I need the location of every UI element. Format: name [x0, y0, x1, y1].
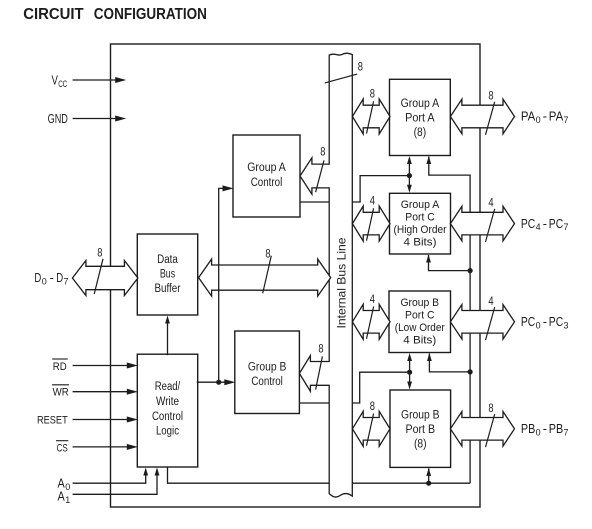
arrowhead branch into Port B bottom	[426, 468, 431, 476]
svg-text:PB: PB	[549, 421, 563, 436]
slash on Group A Control arrow	[316, 160, 324, 192]
double arrow Port C lower to Port B	[407, 353, 412, 390]
svg-text:CS: CS	[57, 442, 68, 454]
slash on internal-bus Port B arrow	[367, 414, 374, 446]
svg-text:Internal Bus Line: Internal Bus Line	[334, 237, 348, 328]
block Group A Port A	[390, 79, 451, 155]
wire rail branch to Group A Port C bottom arrow	[429, 255, 471, 271]
svg-text:-: -	[543, 314, 547, 329]
width label 8 on Group B Control arrow	[318, 343, 323, 355]
svg-text:Port A: Port A	[405, 113, 435, 125]
pin label GND	[48, 111, 68, 126]
title CIRCUIT CONFIGURATION	[23, 6, 207, 23]
pin label CS with overline	[56, 441, 68, 455]
slash on internal-bus Port C upper arrow	[367, 208, 374, 240]
svg-text:Group B: Group B	[401, 410, 440, 422]
bus arrow internal bus to Port C upper (4-bit, bidirectional)	[352, 206, 390, 241]
block Group A Control	[233, 135, 300, 217]
svg-text:8: 8	[370, 401, 375, 413]
slash on internal-bus Port A arrow	[367, 101, 374, 133]
pin wire Vcc with arrow into chip	[73, 77, 127, 83]
pin label PB0 - PB7	[521, 421, 569, 438]
svg-text:WR: WR	[53, 387, 69, 399]
svg-text:8: 8	[488, 90, 493, 102]
svg-text:PC: PC	[549, 216, 563, 231]
slash on buffer-bus arrow	[263, 256, 272, 293]
bus arrow internal bus to Port A (8-bit, bidirectional)	[352, 99, 390, 134]
wire Read/Write Control Logic to Data Bus Buffer with up arrow	[165, 316, 170, 356]
width label 4 on internal-bus Port C lower arrow	[370, 294, 376, 306]
pin wire WR with arrow into Read/Write Control Logic	[73, 389, 138, 395]
svg-text:Control: Control	[251, 177, 283, 189]
pin wire GND with arrow into chip	[73, 116, 127, 122]
internal bus line (vertical bus with break marks)	[329, 53, 352, 497]
svg-text:Group A: Group A	[401, 98, 440, 110]
width label 8 on buffer-bus arrow	[265, 248, 270, 260]
svg-text:0: 0	[536, 427, 541, 438]
svg-text:4: 4	[536, 222, 541, 233]
width label 4 on external PC0 - PC3 arrow	[488, 296, 494, 308]
svg-text:Port B: Port B	[406, 424, 436, 436]
svg-text:-: -	[543, 216, 547, 231]
pin label D0 - D7	[34, 270, 68, 287]
svg-text:4: 4	[370, 294, 376, 306]
pin label PC0 - PC3	[521, 314, 569, 331]
svg-text:Group A: Group A	[247, 162, 286, 174]
svg-text:4: 4	[370, 196, 376, 208]
svg-text:V: V	[52, 72, 59, 87]
arrowhead control rail into Port A bottom	[426, 156, 431, 164]
svg-text:4 Bits): 4 Bits)	[403, 335, 436, 347]
junction dot Group B ports link	[407, 370, 412, 375]
svg-text:Group B: Group B	[248, 361, 287, 373]
svg-text:PB: PB	[521, 421, 535, 436]
svg-text:8: 8	[370, 88, 375, 100]
wire rail top to Port A bottom arrow	[429, 157, 470, 176]
svg-text:8: 8	[265, 248, 270, 260]
pin wire A1 into Read/Write Control Logic bottom	[73, 468, 160, 495]
junction dot on rail for Port C upper	[468, 268, 473, 273]
block Group B Port C lower	[389, 291, 451, 353]
wire Group A Control to internal bus (left of bus)	[299, 201, 330, 203]
svg-text:PC: PC	[521, 314, 535, 329]
svg-text:Logic: Logic	[156, 426, 179, 438]
svg-text:CC: CC	[58, 79, 67, 90]
bus arrow D0-D7 to Data Bus Buffer (8-bit, bidirectional)	[72, 261, 137, 296]
internal bus label	[334, 237, 348, 328]
junction dot on rail for Port C lower	[468, 369, 473, 374]
junction dot on bottom control wire for Port B	[426, 481, 431, 486]
width label 8 on internal-bus Port B arrow	[370, 401, 375, 413]
svg-text:8: 8	[318, 343, 323, 355]
width label 4 on external PC4 - PC7 arrow	[488, 198, 494, 210]
double arrow Port A to Port C upper	[407, 156, 412, 193]
bus arrow internal bus to Group A Control (8-bit)	[300, 158, 331, 194]
svg-text:D: D	[34, 270, 41, 285]
svg-text:1: 1	[65, 495, 70, 506]
bus arrow internal bus to Port B (8-bit, bidirectional)	[352, 411, 390, 446]
bus arrow PB0 - PB7 external (8-bit, bidirectional)	[450, 412, 514, 447]
svg-text:Buffer: Buffer	[155, 283, 181, 295]
slash on external PB0 - PB7 arrow	[486, 414, 495, 447]
wire right control rail vertical	[469, 175, 471, 484]
svg-text:GND: GND	[48, 111, 68, 126]
pin label RESET	[37, 415, 68, 427]
wire Group B link bus to Port C / Port B junction	[352, 372, 410, 403]
block Read/Write Control Logic	[137, 354, 197, 467]
width label 8 on internal-bus Port A arrow	[370, 88, 375, 100]
svg-text:Port C: Port C	[405, 310, 435, 322]
svg-text:Control: Control	[152, 411, 183, 423]
svg-text:3: 3	[564, 320, 569, 331]
svg-text:0: 0	[536, 320, 541, 331]
pin wire RD with arrow into Read/Write Control Logic	[73, 363, 138, 369]
bus arrow internal bus to Group B Control (8-bit)	[299, 356, 330, 392]
svg-text:4: 4	[488, 198, 494, 210]
bus width label 8 at top	[358, 62, 363, 74]
svg-text:Group B: Group B	[401, 297, 440, 309]
svg-text:7: 7	[564, 115, 569, 126]
width label 8 on external PB0 - PB7 arrow	[488, 403, 493, 415]
svg-text:RESET: RESET	[37, 415, 68, 427]
wire Group B Control to internal bus (left of bus)	[298, 402, 330, 404]
svg-text:7: 7	[564, 427, 569, 438]
svg-text:0: 0	[536, 115, 541, 126]
pin wire A0 into Read/Write Control Logic bottom	[73, 468, 149, 484]
svg-text:Group A: Group A	[401, 199, 440, 211]
svg-text:(High Order: (High Order	[394, 224, 447, 236]
slash on D0-D7 arrow	[94, 259, 103, 294]
bus arrow PA0 - PA7 external (8-bit, bidirectional)	[450, 99, 514, 134]
pin wire RESET with arrow into Read/Write Control Logic	[73, 417, 138, 423]
width label 8 on D0-D7 arrow	[97, 247, 102, 259]
svg-text:PC: PC	[521, 216, 535, 231]
pin wire CS with arrow into Read/Write Control Logic	[73, 444, 138, 450]
block Group A Port C upper	[390, 193, 451, 254]
svg-text:8: 8	[320, 147, 325, 159]
pin label PA0 - PA7	[521, 109, 569, 126]
svg-text:PA: PA	[521, 109, 536, 124]
svg-text:Bus: Bus	[160, 269, 175, 281]
svg-text:Write: Write	[156, 396, 179, 408]
svg-text:Port C: Port C	[405, 212, 435, 224]
slash on Group B Control arrow	[316, 356, 323, 389]
svg-text:(8): (8)	[414, 127, 427, 139]
svg-text:Read/: Read/	[155, 381, 181, 393]
slash on external PC4 - PC7 arrow	[486, 209, 495, 242]
arrowhead rail branch into Port C upper bottom	[426, 255, 431, 263]
slash on internal-bus Port C lower arrow	[367, 307, 374, 339]
svg-text:-: -	[543, 109, 547, 124]
pin label Vcc	[52, 72, 68, 89]
svg-text:4: 4	[488, 296, 494, 308]
svg-text:CIRCUIT: CIRCUIT	[23, 6, 84, 23]
slash on external PA0 - PA7 arrow	[486, 102, 495, 135]
wire junction up to Group A Control with arrow	[219, 185, 234, 382]
pin label PC4 - PC7	[521, 216, 569, 233]
svg-text:(Low Order: (Low Order	[395, 322, 445, 334]
pin label A1	[58, 489, 71, 506]
svg-text:7: 7	[64, 276, 69, 287]
svg-text:4 Bits): 4 Bits)	[404, 237, 437, 249]
wire Read/Write Control Logic to Group B Control with junction and arrow	[197, 379, 236, 385]
svg-text:0: 0	[42, 276, 47, 287]
bus arrow Data Bus Buffer to internal bus (8-bit, bidirectional)	[199, 259, 331, 296]
wire Group A link bus to Port A / Port C junction	[352, 176, 410, 202]
svg-text:RD: RD	[53, 361, 67, 373]
bus width slash at top	[325, 74, 357, 83]
svg-text:Control: Control	[251, 376, 283, 388]
wire control line from Read/Write Control Logic bottom to right rail (behind bus)	[168, 466, 471, 483]
outer chip boundary box	[111, 44, 481, 507]
svg-text:8: 8	[358, 62, 363, 74]
bus arrow PC0 - PC3 external (4-bit, bidirectional)	[450, 305, 514, 340]
slash on external PC0 - PC3 arrow	[486, 307, 495, 340]
svg-text:-: -	[50, 270, 54, 285]
junction dot Group A ports link	[407, 173, 412, 178]
wire rail branch to Group B Port C bottom arrow	[429, 354, 470, 372]
bus arrow PC4 - PC7 external (4-bit, bidirectional)	[450, 206, 514, 241]
svg-text:8: 8	[488, 403, 493, 415]
svg-text:PC: PC	[549, 314, 563, 329]
svg-text:A: A	[58, 489, 65, 504]
width label 8 on Group A Control arrow	[320, 147, 325, 159]
width label 4 on internal-bus Port C upper arrow	[370, 196, 376, 208]
svg-text:D: D	[56, 270, 63, 285]
pin label WR with overline	[52, 385, 69, 399]
svg-text:8: 8	[97, 247, 102, 259]
block Data Bus Buffer	[137, 234, 197, 315]
block Group B Control	[235, 331, 300, 414]
arrowhead rail branch into Port C lower bottom	[427, 353, 432, 361]
svg-text:CONFIGURATION: CONFIGURATION	[94, 6, 207, 23]
svg-text:PA: PA	[549, 109, 564, 124]
svg-text:(8): (8)	[414, 439, 427, 451]
block Group B Port B	[390, 390, 451, 467]
pin label A0	[58, 476, 71, 493]
pin label RD with overline	[52, 359, 67, 373]
width label 8 on external PA0 - PA7 arrow	[488, 90, 493, 102]
bus arrow internal bus to Port C lower (4-bit, bidirectional)	[352, 304, 390, 339]
svg-text:0: 0	[65, 482, 70, 493]
svg-text:-: -	[543, 421, 547, 436]
svg-text:Data: Data	[157, 254, 178, 266]
wire branch up to Group B Port B bottom arrow	[428, 468, 430, 483]
svg-text:7: 7	[564, 222, 569, 233]
